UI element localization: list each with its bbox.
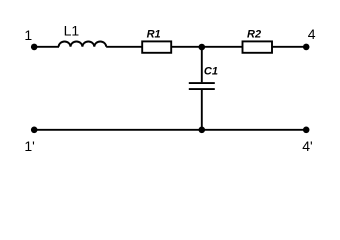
svg-text:4': 4': [302, 138, 312, 154]
svg-text:4: 4: [308, 26, 316, 42]
wire bottom rail 1' to node B: [34, 129, 202, 131]
wire node A to C1: [201, 47, 203, 83]
inductor L1: [59, 23, 107, 47]
svg-text:1': 1': [24, 138, 34, 154]
terminal node 1': [24, 127, 37, 154]
wire node 1 to L1: [34, 46, 59, 48]
capacitor C1: [189, 65, 218, 89]
wire L1 to R1: [106, 46, 142, 48]
wire R1 to node A: [171, 46, 202, 48]
svg-text:1: 1: [24, 27, 32, 43]
wire bottom rail node B to 4': [202, 129, 306, 131]
terminal node 1: [24, 27, 37, 50]
svg-text:L1: L1: [64, 23, 80, 39]
terminal node 4': [302, 127, 312, 154]
wire R2 to node 4: [272, 46, 306, 48]
wire node A to R2: [202, 46, 243, 48]
svg-text:R1: R1: [147, 29, 161, 41]
resistor R1: [142, 29, 171, 53]
svg-text:R2: R2: [247, 28, 261, 40]
junction node B: [199, 127, 206, 134]
wire C1 to node B: [201, 90, 203, 130]
resistor R2: [243, 28, 273, 53]
svg-text:C1: C1: [204, 65, 218, 77]
terminal node 4: [303, 26, 316, 50]
junction node A: [199, 44, 206, 51]
